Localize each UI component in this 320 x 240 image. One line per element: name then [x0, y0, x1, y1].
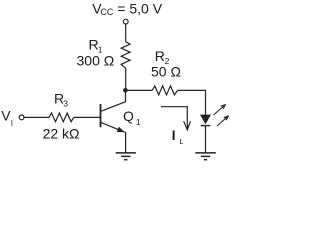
VCC terminal [123, 19, 128, 24]
wire R1 to node [125, 68, 127, 90]
svg-text:50 Ω: 50 Ω [151, 64, 181, 80]
label Q1 [123, 108, 141, 127]
label IL [172, 128, 184, 146]
wire VI to R3 [24, 116, 49, 118]
wire R3 to base [74, 116, 100, 118]
svg-text:= 5,0 V: = 5,0 V [117, 0, 162, 16]
svg-text:R: R [155, 48, 165, 64]
label R3 [54, 91, 68, 109]
node junction dot [123, 88, 128, 93]
wire R2 to LED [178, 90, 206, 115]
current arrow IL [161, 107, 191, 130]
svg-text:22 kΩ: 22 kΩ [43, 126, 80, 142]
supply label VCC = 5,0 V [92, 0, 163, 17]
LED light arrow 2 [217, 116, 229, 126]
wire VCC to R1 [125, 24, 127, 42]
label R1 [89, 37, 103, 55]
resistor R1 [121, 42, 130, 69]
label R2 [155, 48, 170, 66]
wire node to R2 [127, 89, 152, 91]
VI input terminal [19, 115, 24, 120]
transistor Q1 collector [101, 89, 126, 111]
svg-text:L: L [179, 137, 183, 146]
LED light arrow 1 [214, 105, 226, 116]
transistor Q1 emitter arrow [117, 127, 125, 133]
svg-text:CC: CC [100, 7, 113, 17]
LED cathode bar [201, 125, 211, 127]
svg-text:300 Ω: 300 Ω [77, 53, 115, 69]
resistor R3 [49, 113, 74, 122]
ground left [116, 153, 136, 160]
transistor Q1 emitter [101, 122, 126, 152]
svg-text:I: I [172, 128, 176, 143]
wire LED to ground [205, 126, 207, 153]
resistor R2 [152, 86, 177, 95]
ground right [195, 153, 216, 160]
svg-text:I: I [11, 119, 13, 128]
svg-text:V: V [1, 107, 11, 123]
LED D1 triangle [201, 115, 211, 124]
input label VI [1, 107, 13, 128]
svg-text:1: 1 [136, 117, 141, 127]
svg-text:Q: Q [123, 108, 134, 124]
transistor Q1 base bar [100, 104, 102, 127]
svg-text:3: 3 [63, 98, 68, 108]
